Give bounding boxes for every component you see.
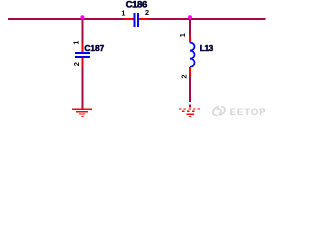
ground G1 (left, solid) bbox=[72, 109, 92, 118]
svg-text:2: 2 bbox=[145, 8, 149, 17]
wire W4 left vertical lower bbox=[81, 66, 83, 108]
svg-text:C186: C186 bbox=[126, 0, 147, 10]
svg-text:L13: L13 bbox=[200, 43, 214, 53]
wire W3 left vertical upper bbox=[81, 19, 83, 43]
svg-text:2: 2 bbox=[180, 74, 189, 78]
junction B (right) bbox=[188, 15, 192, 19]
wire W6 right vertical lower bbox=[189, 76, 191, 97]
wire W2 top horizontal right segment bbox=[149, 18, 266, 20]
capacitor C187 bbox=[75, 43, 90, 66]
wire W7 right vertical dashed stub bbox=[189, 98, 191, 108]
wire W1 top horizontal left segment bbox=[8, 18, 124, 20]
watermark EETOP logo swirl bbox=[213, 107, 225, 116]
svg-text:1: 1 bbox=[71, 41, 80, 45]
junction A (left) bbox=[80, 15, 84, 19]
wire W5 right vertical upper bbox=[189, 19, 191, 36]
svg-text:2: 2 bbox=[72, 62, 81, 66]
svg-text:1: 1 bbox=[178, 33, 187, 37]
capacitor C186 bbox=[124, 13, 149, 27]
ground G2 (right, dashed) bbox=[179, 109, 202, 117]
svg-text:EETOP: EETOP bbox=[230, 107, 267, 118]
svg-text:C187: C187 bbox=[84, 43, 104, 53]
inductor L13 bbox=[189, 36, 195, 76]
